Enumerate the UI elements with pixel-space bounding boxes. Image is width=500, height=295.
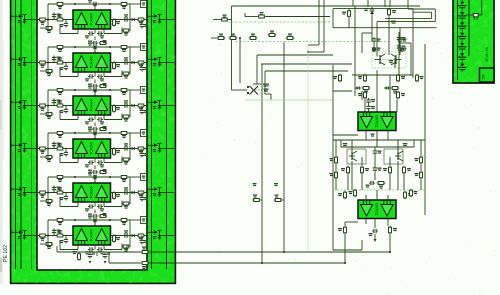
wire ch1 fb left v	[77, 29, 79, 34]
wire mid v2	[239, 38, 241, 83]
resistor R65	[45, 243, 54, 250]
wire right v368 top	[367, 0, 369, 7]
resistor R31	[56, 89, 65, 96]
node ch2 rail-b	[109, 46, 111, 48]
wire ch1 bottom mid	[94, 29, 96, 34]
resistor R102	[397, 91, 406, 100]
wire ch6 rail upL	[56, 246, 58, 252]
resistor R28	[122, 72, 131, 79]
resistor R37	[137, 104, 146, 111]
wire ch2 fb left h	[60, 76, 78, 78]
wire ch5 bottom mid	[94, 202, 96, 207]
node ch6 in	[47, 235, 49, 237]
connector label block	[480, 68, 495, 82]
resistor R48	[122, 158, 131, 165]
resistor R81	[217, 34, 226, 40]
resistor R82	[229, 34, 238, 40]
resistor R59	[99, 213, 108, 218]
capacitor C32	[52, 99, 61, 105]
wire ch2 in-branch2	[65, 63, 67, 65]
wire ch1 in-branch2	[65, 20, 67, 22]
wire ch4 coupling v	[94, 166, 96, 170]
wire ch2 coupling v	[94, 80, 96, 84]
resistor R101	[358, 91, 367, 100]
capacitor C54	[123, 187, 129, 194]
node ch5 ll	[47, 200, 49, 202]
wire right v333up	[332, 9, 334, 28]
wire ch6 fb left v	[77, 245, 79, 250]
wire step h2	[377, 21, 435, 23]
wire board output 1	[149, 251, 390, 253]
wire col375 c	[374, 172, 376, 180]
resistor R95	[333, 74, 342, 83]
wire col404	[403, 174, 405, 190]
wire ch1 rail to trimmer	[130, 3, 141, 5]
wire rail147	[341, 146, 414, 148]
resistor R13	[38, 18, 47, 25]
wire c101 v	[368, 103, 370, 106]
resistor R19	[99, 40, 108, 45]
wire ch3 output	[111, 105, 148, 107]
capacitor C90 diode cluster	[364, 7, 374, 16]
wire ch3 rail drop right	[129, 90, 131, 117]
capacitor C24	[123, 57, 129, 64]
capacitor C100	[398, 46, 407, 52]
diode D51	[130, 191, 136, 194]
wire right v353 top	[352, 0, 354, 6]
wire ch5 fb left h	[60, 206, 78, 208]
node ch4 rail-b	[109, 132, 111, 134]
resistor R115	[389, 226, 398, 235]
wire ch3 fb left up	[59, 111, 61, 120]
wire ch4 bottom mid	[94, 158, 96, 163]
left bus conductor line 3	[31, 0, 33, 269]
capacitor C37 coupling	[88, 127, 98, 132]
capacitor C56b	[97, 204, 104, 211]
resistor R38	[122, 115, 131, 122]
wire col362 a	[361, 157, 363, 166]
wire b2 out3	[387, 219, 389, 226]
svg-text:TCA365: TCA365	[375, 203, 379, 216]
capacitor C43	[60, 151, 69, 157]
wire b1 in1	[364, 99, 366, 112]
left bus conductor line 2	[20, 0, 22, 269]
wire r92 down	[388, 16, 390, 55]
capacitor C94	[397, 36, 406, 42]
capacitor C41	[88, 129, 98, 136]
wire ch6 rl-v	[141, 236, 143, 239]
diode D41	[130, 147, 136, 150]
transistor Q13 cluster box	[384, 149, 403, 164]
wire ch5 rl-v	[141, 193, 143, 196]
wire ch3 rail drop left	[47, 90, 49, 114]
transistor Q12	[343, 143, 357, 161]
capacitor C102	[366, 105, 375, 111]
wire ch5 rail to trimmer	[130, 176, 141, 178]
wire conn fuse v	[481, 0, 483, 15]
wire ch5 coupling v2	[94, 219, 96, 226]
transistor Q10	[372, 49, 385, 66]
wire ch2 output	[111, 62, 148, 64]
resistor R106	[415, 171, 423, 180]
wire ch5 rail drop left	[47, 177, 49, 201]
wire ch3 rail drop mid	[94, 90, 96, 96]
resistor R96	[358, 74, 367, 83]
resistor R44	[56, 143, 65, 150]
wire switch left	[232, 89, 248, 91]
wire ch1 ll-stub	[40, 27, 45, 29]
resistor R83	[249, 34, 258, 40]
resistor R117	[410, 189, 418, 198]
trimmer P6	[141, 217, 147, 224]
wire col375 a	[374, 147, 376, 149]
transistor Q6a input bus device	[12, 230, 38, 239]
wire col390 a	[389, 157, 391, 166]
wire ch6 output	[111, 235, 148, 237]
wire mid v3	[283, 42, 285, 252]
wire col336 b	[335, 164, 337, 170]
resistor R71	[141, 262, 150, 270]
wire ch5 fb right up	[121, 201, 123, 207]
wire ch6 rail drop mid	[94, 220, 96, 226]
wire b2 in1	[365, 195, 367, 200]
resistor R42	[120, 132, 129, 139]
wire ch4 fb left up	[59, 154, 61, 163]
wire right v390	[389, 0, 391, 7]
resistor R98	[416, 74, 424, 83]
wire ch4 fb left h	[60, 162, 78, 164]
wire v374	[373, 43, 375, 46]
board PE102 green frame	[10, 0, 176, 284]
label r87	[274, 183, 278, 184]
wire out2 v	[344, 234, 346, 263]
diode D86 connector element	[458, 62, 467, 72]
wire ch3 fb left h	[60, 119, 78, 121]
wire col336 c	[335, 179, 337, 190]
ground ch6 a	[89, 261, 92, 264]
transistor Q1a input bus device	[12, 14, 38, 23]
capacitor C21	[88, 43, 98, 50]
capacitor C36b	[97, 117, 104, 124]
wire ch6 in-branch2	[65, 236, 67, 238]
wire ch5 top supply rail	[48, 176, 130, 178]
resistor R21	[56, 46, 65, 53]
wire mid tick	[244, 13, 246, 17]
wire ch1 top supply rail	[48, 3, 130, 5]
wire col421 c	[420, 179, 422, 190]
wire switch up1	[256, 55, 258, 84]
wire switch up2	[261, 64, 263, 97]
capacitor C44	[123, 143, 129, 150]
resistor R39	[99, 126, 108, 131]
wire ch4 rail drop right	[129, 133, 131, 160]
resistor R114	[338, 226, 347, 235]
diode D81 connector element	[458, 10, 467, 20]
wire ch2 fb right up	[121, 71, 123, 77]
node ch3 ll	[47, 113, 49, 115]
connector X1 green housing	[453, 0, 494, 83]
resistor R92	[388, 8, 397, 17]
wire ch6 second v	[108, 252, 110, 263]
wire step v3	[431, 12, 433, 18]
capacitor C46	[85, 160, 94, 167]
wire mid in stub	[211, 37, 217, 39]
transistor Q2a input bus device	[12, 57, 38, 66]
wire ch2 in-branch	[53, 56, 55, 63]
wire b2 in3	[387, 195, 389, 200]
capacitor C16	[85, 31, 94, 38]
wire ch2 fb left v	[77, 72, 79, 77]
capacitor C62	[52, 229, 61, 235]
wire step h3	[413, 11, 432, 13]
wire right h190d	[333, 189, 425, 191]
capacitor C92	[366, 181, 376, 188]
wire ch3 fb left v	[77, 115, 79, 120]
wire ch1 coupling v	[94, 37, 96, 41]
diode D11	[130, 18, 136, 21]
resistor R87	[274, 195, 283, 202]
wire ch3 coupling v	[94, 123, 96, 127]
wire ch5 rail drop right	[129, 177, 131, 204]
capacitor C16b	[97, 31, 104, 38]
capacitor C35	[140, 109, 148, 115]
capacitor C42	[52, 142, 61, 148]
wire ch4 rl-v	[141, 149, 143, 152]
svg-text:TCA365: TCA365	[90, 56, 94, 69]
wire ch4 rail drop left	[47, 133, 49, 157]
node ch4 ll	[47, 156, 49, 158]
capacitor C96	[373, 166, 382, 172]
wire r87 stub	[282, 199, 284, 201]
capacitor C52	[52, 186, 61, 192]
resistor R108	[361, 166, 370, 175]
capacitor C101	[366, 98, 375, 104]
ground ch6 b	[104, 261, 107, 264]
resistor R36	[113, 104, 121, 113]
capacitor C33	[60, 108, 69, 114]
wire ch2 rail drop left	[47, 47, 49, 71]
fuse F1	[466, 14, 482, 20]
wire b1 in2	[376, 70, 378, 112]
wire col421 a	[420, 140, 422, 156]
wire ch4 ll-stub	[40, 156, 45, 158]
capacitor C69	[103, 252, 111, 259]
capacitor C98	[372, 46, 381, 52]
wire mid dashed b	[236, 41, 390, 43]
wire ch1 rail drop right	[129, 4, 131, 31]
diode D31	[130, 104, 136, 107]
wire cap branch v399	[398, 32, 400, 75]
resistor R113	[404, 191, 413, 200]
label c out	[371, 134, 375, 135]
wire right h91	[333, 90, 352, 92]
wire switch bend v	[270, 94, 272, 100]
resistor R46	[113, 147, 121, 156]
node ch3 rail-a	[74, 89, 76, 91]
node ch4 rail-a	[74, 132, 76, 134]
resistor R57	[137, 191, 146, 198]
svg-text:TCA365: TCA365	[90, 142, 94, 155]
node ch1 in	[47, 19, 49, 21]
resistor R97	[397, 74, 406, 83]
transistor Q11	[391, 49, 404, 66]
diode D80 connector element	[458, 0, 467, 10]
wire ch5 input	[37, 192, 73, 194]
wire b1 in3	[389, 75, 391, 112]
wire ch2 top supply rail	[48, 46, 130, 48]
node mid c	[261, 262, 263, 264]
wire top v324	[323, 0, 325, 52]
trimmer P5	[141, 174, 147, 181]
capacitor C65	[140, 239, 148, 245]
resistor R100	[391, 87, 400, 94]
transistor Q3a input bus device	[12, 100, 38, 109]
wire ch6 top supply rail	[48, 219, 130, 221]
wire ch4 top supply rail	[48, 132, 130, 134]
resistor R107	[341, 166, 350, 175]
wire mid top long	[232, 5, 421, 7]
wire ch3 bottom mid	[94, 115, 96, 120]
wire v377 down	[376, 22, 378, 57]
node mid a	[239, 37, 241, 39]
wire ch5 ll-stub	[40, 200, 45, 202]
wire ch6 fb right v	[103, 245, 105, 250]
capacitor C34	[123, 100, 129, 107]
wire cap branch h43	[399, 42, 411, 44]
resistor R45	[45, 156, 54, 163]
capacitor C61	[88, 216, 98, 223]
node ch5 out	[146, 192, 148, 194]
resistor R99	[362, 87, 371, 94]
node v308	[307, 51, 309, 53]
trimmer P4	[141, 130, 147, 137]
capacitor C66b	[97, 247, 104, 254]
wire ch1 rail drop left	[47, 4, 49, 28]
op-amp U5 dual amplifier IC	[73, 183, 111, 202]
right bus conductor line 1	[151, 0, 153, 269]
wire ch2 input	[37, 62, 73, 64]
capacitor C11	[88, 0, 98, 6]
wire ch1 fb left h	[60, 33, 78, 35]
wire ch6 bottom rail	[57, 251, 141, 253]
transistor Q1b output bus device	[147, 14, 175, 23]
wire b1 out1	[365, 131, 367, 141]
resistor R90	[342, 9, 351, 18]
wire ch2 ll-stub	[40, 70, 45, 72]
wire ch3 top supply rail	[48, 89, 130, 91]
wire switch up3	[264, 71, 266, 94]
diode D82 connector element	[458, 20, 467, 30]
wire ch3 ll-stub	[40, 113, 45, 115]
resistor R32	[120, 89, 129, 96]
wire ch1 input	[37, 19, 73, 21]
wire out1 v	[389, 234, 391, 252]
resistor R52	[120, 176, 129, 183]
capacitor C95	[397, 44, 406, 50]
transistor Q5a input bus device	[12, 187, 38, 196]
diode D90	[355, 86, 361, 89]
wire mid v1	[231, 6, 233, 90]
resistor R110	[403, 166, 412, 175]
op-amp U1 dual amplifier IC	[73, 10, 111, 29]
capacitor C53	[60, 195, 69, 201]
resistor R109	[383, 166, 392, 175]
capacitor C23	[60, 65, 69, 71]
wire b1 in5	[361, 91, 363, 100]
capacitor C56	[85, 204, 94, 211]
node ch1 ll	[47, 27, 49, 29]
wire ch2 rail drop mid	[94, 47, 96, 53]
wire ch1 rl-v	[141, 20, 143, 23]
capacitor C14	[123, 14, 129, 21]
wire ch5 in-branch	[53, 186, 55, 193]
node out1	[389, 251, 391, 253]
wire ch6 ll-stub	[40, 243, 45, 245]
resistor R12	[120, 3, 129, 10]
wire ch4 coupling v2	[94, 175, 96, 182]
node ch5 rail-a	[74, 176, 76, 178]
wire b2 out2	[374, 219, 376, 229]
resistor R29	[99, 83, 108, 88]
wire top v319	[318, 0, 320, 45]
resistor R24	[56, 57, 65, 64]
wire ch2 fb left up	[59, 68, 61, 77]
wire q13 v	[397, 140, 399, 153]
capacitor C47 coupling	[88, 170, 98, 175]
wire ch2 fb right v	[103, 72, 105, 77]
node ch5 in	[47, 192, 49, 194]
wire col421 b	[420, 164, 422, 170]
wire step h4	[385, 17, 432, 19]
capacitor C91	[373, 149, 382, 155]
wire ch6 rail drop right	[129, 220, 131, 247]
wire box l v	[361, 33, 363, 53]
switch S1 crossover contacts	[247, 84, 269, 95]
wire ch3 coupling v2	[94, 132, 96, 139]
wire switch bend	[265, 93, 271, 95]
node ch5 rail-b	[109, 176, 111, 178]
op-amp U7 dual driver IC	[358, 112, 396, 131]
node ch2 ll	[47, 70, 49, 72]
wire ch5 in-branch2	[65, 193, 67, 195]
svg-text:TCA365: TCA365	[90, 99, 94, 112]
wire ch3 rail to trimmer	[130, 89, 141, 91]
capacitor C99	[398, 37, 407, 43]
resistor R103	[330, 156, 338, 165]
resistor R49	[99, 169, 108, 174]
capacitor C26	[85, 74, 94, 81]
trimmer P1	[141, 1, 147, 8]
capacitor C31	[88, 86, 98, 93]
capacitor C97	[372, 37, 381, 43]
capacitor C51	[88, 173, 98, 180]
wire ch3 input	[37, 105, 73, 107]
wire b1 in4	[396, 99, 398, 112]
resistor R112	[338, 191, 347, 200]
scan margin strip	[0, 0, 3, 284]
diode D85 connector element	[458, 51, 467, 61]
resistor R14	[56, 14, 65, 21]
wire ch6 rail upR	[126, 246, 128, 253]
wire ch6 fb right h	[104, 249, 122, 251]
trimmer P3	[141, 87, 147, 94]
node ch4 out	[146, 148, 148, 150]
resistor R116	[349, 189, 357, 198]
wire right h140	[333, 139, 425, 141]
resistor R111	[377, 182, 386, 189]
wire ch6 input	[37, 235, 73, 237]
wire right rail right	[424, 44, 426, 215]
